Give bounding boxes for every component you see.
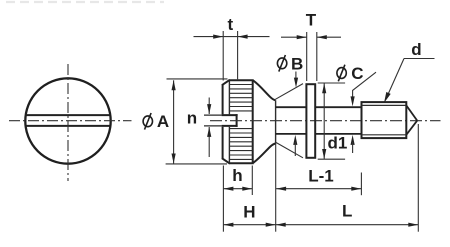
label phi A xyxy=(143,112,169,131)
main horizontal centerline (side view) xyxy=(210,120,441,122)
head bottom edge xyxy=(229,162,254,164)
head neck upper curve xyxy=(253,81,275,101)
dimension T xyxy=(281,11,341,81)
knurl lines xyxy=(230,85,253,160)
head top-left chamfer xyxy=(222,80,230,85)
head neck lower curve xyxy=(253,144,275,163)
thread inner top line xyxy=(362,104,407,106)
dimension n xyxy=(187,98,211,158)
slot extension thin lines xyxy=(204,114,222,116)
head side view outline xyxy=(222,80,254,164)
extension line head right xyxy=(251,166,253,196)
svg-text:n: n xyxy=(187,109,197,128)
dimension H xyxy=(223,203,275,227)
shaft lower edge xyxy=(315,133,361,135)
thread inner bottom line xyxy=(362,134,407,136)
thread outer rectangle xyxy=(362,102,407,138)
head circle (front view) xyxy=(25,78,110,163)
label d with leader xyxy=(384,40,435,103)
head top edge xyxy=(229,79,254,81)
neck lower edge xyxy=(276,133,307,135)
top cropped text remnant xyxy=(6,1,164,3)
head bottom-left chamfer xyxy=(222,158,230,163)
svg-text:t: t xyxy=(227,15,233,34)
svg-text:T: T xyxy=(306,11,317,30)
slot notch (side view section) xyxy=(222,114,238,127)
svg-text:C: C xyxy=(351,64,363,83)
chamfer boundary line xyxy=(228,80,230,114)
slot lower line (front view) xyxy=(26,125,110,127)
head right edge xyxy=(252,80,254,163)
svg-text:h: h xyxy=(232,166,242,185)
svg-text:H: H xyxy=(243,203,255,222)
svg-text:L-1: L-1 xyxy=(308,167,334,186)
extension line head left xyxy=(222,166,224,232)
svg-text:B: B xyxy=(291,55,303,74)
svg-text:d: d xyxy=(411,40,421,59)
extension line screw tip xyxy=(417,124,419,232)
phi C lower arrow xyxy=(351,135,355,153)
lower oblique extension line xyxy=(275,142,303,158)
vertical centerline (front view) xyxy=(67,64,69,181)
label phi B with leader xyxy=(277,55,303,88)
dimension t xyxy=(194,15,270,80)
tip cone upper xyxy=(406,105,417,120)
svg-text:d1: d1 xyxy=(328,134,348,153)
svg-text:A: A xyxy=(157,112,169,131)
svg-text:L: L xyxy=(342,201,352,220)
phi B lower arrow xyxy=(293,135,297,156)
label phi C with leader xyxy=(337,64,376,106)
slot upper line (front view) xyxy=(26,114,110,116)
neck rim vertical edge xyxy=(275,100,277,143)
dimension L xyxy=(276,201,419,227)
neck upper edge xyxy=(276,106,307,108)
upper oblique extension line xyxy=(275,84,303,100)
dimension phiA line xyxy=(166,79,228,164)
tip cone lower xyxy=(406,121,417,135)
dimension d1 xyxy=(318,83,348,159)
dimension h xyxy=(223,166,252,191)
shaft upper edge xyxy=(315,106,361,108)
horizontal centerline (front view) xyxy=(9,120,132,122)
head left face xyxy=(222,85,224,115)
extension line neck start xyxy=(275,143,277,232)
collar flange xyxy=(306,84,315,158)
dimension L-1 xyxy=(276,167,361,196)
